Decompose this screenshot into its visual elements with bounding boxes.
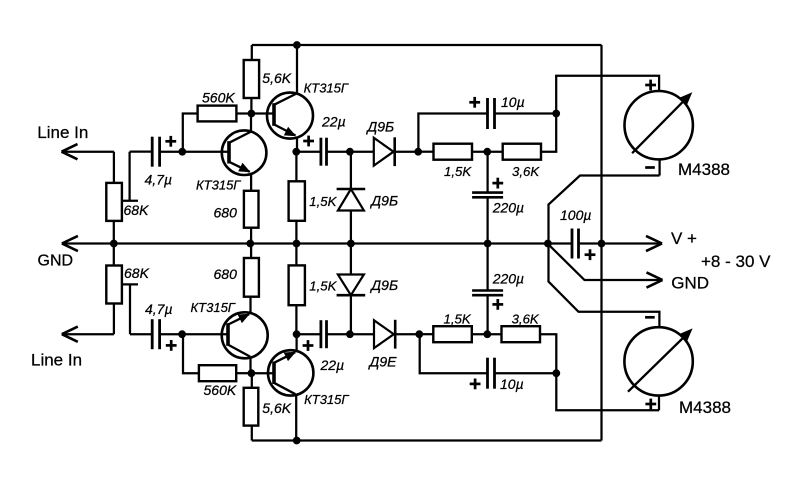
wire 3,6K right to vertical (top) [541, 114, 556, 152]
label 680 (top) [214, 205, 238, 221]
label GND right [671, 274, 709, 293]
svg-text:68K: 68K [124, 202, 150, 218]
wire Д9Е to rect node (bottom) [395, 333, 419, 335]
svg-text:Line In: Line In [37, 123, 88, 142]
label M4388 (bottom) [679, 398, 731, 417]
svg-text:1,5K: 1,5K [309, 278, 337, 293]
capacitor 22µ (top) [321, 138, 327, 166]
capacitor 220µ (top) [472, 193, 503, 198]
label 10µ (bottom) [500, 376, 524, 392]
resistor 560K (top) [198, 106, 237, 122]
wire M2 + to meter node [556, 373, 659, 410]
svg-text:GND: GND [671, 274, 709, 293]
wire 68K top upper lead [113, 152, 115, 183]
node rail dot above Q2 [293, 41, 301, 49]
svg-text:КТ315Г: КТ315Г [304, 392, 349, 407]
label 68K (top) [124, 202, 150, 218]
label 3,6K (horizontal bottom) [512, 312, 540, 327]
wire diode vert top lower lead [350, 211, 352, 244]
label 220µ (bottom) [492, 270, 524, 286]
ground GND left arrow [62, 236, 78, 251]
wire diode node to Д9Б (top) [351, 151, 374, 153]
svg-text:КТ315Г: КТ315Г [304, 81, 349, 96]
wire 68K top tap [122, 152, 138, 201]
node GND dot at 680 [246, 240, 254, 248]
transistor Q3 КТ315Г circle [222, 312, 268, 358]
label КТ315Г (Q2) [304, 81, 349, 96]
resistor 560K (bottom) [199, 365, 236, 381]
wire base node to Q3 [182, 333, 228, 335]
label − of M2 [645, 316, 655, 319]
node bus V+ dot [598, 240, 606, 248]
svg-text:1,5K: 1,5K [309, 194, 337, 209]
wire Q1 collector up [250, 114, 252, 132]
transistor Q3 base bar [226, 323, 230, 346]
svg-text:100µ: 100µ [560, 207, 591, 223]
node V+ arrow [646, 236, 662, 251]
node Line In (bottom) label [31, 351, 82, 370]
wire GND node down to M2 − [549, 244, 660, 328]
transistor Q2 collector stroke [274, 94, 297, 105]
transistor Q2 emitter stroke [274, 124, 296, 136]
wire 560K bottom right lead [236, 372, 251, 374]
svg-text:3,6K: 3,6K [512, 164, 540, 179]
svg-text:560K: 560K [204, 382, 237, 398]
meter M2 needle [628, 328, 693, 391]
svg-text:22µ: 22µ [320, 357, 345, 373]
label 5,6K (top) [262, 70, 291, 86]
node GND dot at 220µ [484, 240, 492, 248]
svg-text:680: 680 [214, 266, 238, 282]
wire junction to Q2 base [251, 112, 274, 114]
label 4,7µ (top) [145, 172, 173, 188]
svg-text:4,7µ: 4,7µ [145, 301, 173, 317]
label Д9Е (horizontal bottom) [368, 354, 398, 370]
wire 4,7µ to base node (bottom) [160, 333, 183, 335]
meter M1 circle [625, 91, 693, 159]
label КТ315Г (Q3) [191, 300, 236, 315]
transistor Q1 collector stroke [229, 132, 251, 143]
meter M2 circle [624, 327, 692, 395]
transistor Q1 base bar [227, 141, 231, 163]
wire GND output diagonal [549, 245, 663, 281]
label + of 22µ (top) [303, 136, 314, 147]
resistor 680 (top) [244, 191, 259, 228]
label + of 100µ [585, 249, 596, 260]
wire rect node to 1,5K (bottom) [419, 333, 433, 335]
wire diode vert bottom upper lead [350, 244, 352, 275]
svg-text:1,5K: 1,5K [444, 312, 472, 327]
wire 68K bottom upper lead [113, 244, 115, 266]
svg-text:Line In: Line In [31, 351, 82, 370]
node 10µ/meter node top [552, 110, 560, 118]
svg-text:4,7µ: 4,7µ [145, 172, 173, 188]
label V + [671, 229, 697, 248]
transistor Q3 emitter stroke [228, 314, 250, 325]
label 22µ (top) [321, 113, 346, 129]
resistor 5,6K (bottom) [244, 388, 259, 426]
label 1,5K (horizontal bottom) [444, 312, 472, 327]
wire Д9Б to rect node (top) [395, 151, 419, 153]
node rail dot below Q4 [293, 437, 301, 445]
wire base node to Q1 [182, 151, 229, 153]
diode Д9Е (horizontal bottom) [374, 320, 395, 349]
label + of M2 [645, 399, 656, 410]
transistor Q1 emitter stroke [229, 162, 251, 172]
wire Q3 collector down [249, 357, 251, 373]
capacitor 22µ (bottom) [321, 320, 327, 348]
label +8 - 30 V [701, 252, 771, 271]
label 3,6K (horizontal top) [512, 164, 540, 179]
svg-text:220µ: 220µ [492, 200, 524, 216]
wire 560K right lead [236, 112, 251, 114]
label + of M1 [645, 80, 656, 91]
wire tap to 4,7µ (bottom) [130, 333, 152, 335]
wire 1,5K vert top upper lead [295, 152, 297, 182]
wire M1 − to GND node [549, 176, 660, 244]
node Line In top arrow [62, 144, 78, 159]
resistor 3,6K (horizontal bottom) [502, 326, 541, 342]
node GND dot at diode column [347, 240, 355, 248]
node Line In (top) label [37, 123, 88, 142]
node GND dot at 68K [110, 240, 118, 248]
resistor 68K (bottom) [106, 266, 122, 304]
wire rect node down to 10µ (bottom) [420, 334, 488, 373]
label Д9Б (vertical bottom) [369, 277, 398, 293]
svg-text:68K: 68K [124, 265, 150, 281]
label 680 (bottom) [214, 266, 238, 282]
label 4,7µ (bottom) [145, 301, 173, 317]
node rectifier node bottom [415, 330, 423, 338]
wire rect node up to 10µ (top) [418, 114, 487, 152]
wire diode vert top upper lead [350, 152, 352, 189]
wire 3,6K right to vertical (bottom) [540, 334, 556, 373]
capacitor 4,7µ (top) [152, 137, 159, 167]
wire 1,5K vert bottom upper lead [295, 244, 297, 266]
svg-text:Д9Е: Д9Е [368, 354, 398, 370]
wire GND down to 220µ (bottom) [486, 244, 488, 291]
svg-text:Д9Б: Д9Б [365, 118, 394, 134]
wire V+ output [602, 242, 663, 244]
label 5,6K (bottom) [262, 400, 291, 416]
label Д9Б (vertical top) [369, 193, 398, 209]
resistor 68K (top) [106, 183, 122, 221]
label Д9Б (horizontal top) [365, 118, 394, 134]
node Q4 emitter row dot [293, 330, 301, 338]
label 22µ (bottom) [320, 357, 345, 373]
node base node Q1 [178, 148, 186, 156]
wire 5,6K top upper lead [251, 45, 253, 60]
wire 5,6K bottom upper lead [251, 373, 253, 388]
resistor 1,5K (horizontal bottom) [433, 326, 472, 342]
resistor 1,5K (vertical top) [289, 181, 305, 221]
wire Q4 collector to rail [295, 395, 297, 441]
label 560K (bottom) [204, 382, 237, 398]
wire diode vert bottom lower lead [350, 295, 352, 334]
wire 4,7µ to base node (top) [160, 151, 183, 153]
svg-text:GND: GND [38, 252, 74, 269]
node Line In bottom arrow [62, 327, 78, 342]
label 1,5K (vertical top) [309, 194, 337, 209]
wire 1,5K vert bottom lower lead [295, 305, 297, 334]
wire 68K top lower lead [113, 221, 115, 244]
resistor 1,5K (horizontal top) [434, 144, 473, 160]
wire mid node down to 220µ (top) [486, 152, 488, 193]
wire 5,6K bottom lower lead [251, 426, 253, 441]
svg-text:M4388: M4388 [678, 160, 730, 179]
resistor 1,5K (vertical bottom) [289, 265, 305, 305]
transistor Q1 КТ315Г circle [222, 130, 267, 175]
wire Q2 collector to rail [296, 45, 298, 94]
node 560K/5,6K junction (bottom) [248, 369, 256, 377]
wire 220µ to GND (top) [486, 197, 488, 243]
wire 22µ to diode node (top) [327, 151, 351, 153]
wire bottom V+ rail [252, 439, 602, 441]
svg-text:1,5K: 1,5K [444, 164, 472, 179]
label 1,5K (horizontal top) [444, 164, 472, 179]
label 100µ [560, 207, 591, 223]
label + of 220µ (top) [492, 178, 503, 189]
node rectifier node top [414, 148, 422, 156]
capacitor 4,7µ (bottom) [152, 319, 159, 349]
wire GND node to 100µ [548, 242, 572, 244]
wire Q4 emitter up [295, 334, 297, 351]
transistor Q4 КТ315Г circle [268, 350, 313, 395]
node Q2 emitter row dot [292, 148, 300, 156]
wire right V+ bus [600, 45, 602, 441]
wire 10µ to meter node (top) [495, 112, 557, 114]
svg-text:+8 - 30 V: +8 - 30 V [701, 252, 771, 271]
label M4388 (top) [678, 160, 730, 179]
label 10µ (top) [501, 94, 525, 110]
label + of 22µ (bottom) [303, 340, 314, 351]
wire rect node to 1,5K (top) [418, 151, 433, 153]
resistor 3,6K (horizontal top) [503, 144, 541, 160]
node base node Q3 [178, 330, 186, 338]
wire diode node to Д9Е (bottom) [351, 333, 374, 335]
wire 10µ to meter node (bottom) [495, 372, 557, 374]
label 560K (top) [202, 89, 235, 105]
svg-text:Д9Б: Д9Б [369, 193, 398, 209]
wire 22µ to diode node (bottom) [327, 333, 351, 335]
svg-text:5,6K: 5,6K [262, 70, 291, 86]
label 220µ (top) [492, 200, 524, 216]
wire 1,5K to mid node (top) [472, 151, 503, 153]
node 10µ/meter node bottom [552, 369, 560, 377]
svg-text:10µ: 10µ [501, 94, 525, 110]
resistor 680 (bottom) [244, 258, 259, 297]
label 1,5K (vertical bottom) [309, 278, 337, 293]
svg-text:КТ315Г: КТ315Г [191, 300, 236, 315]
label − of M1 [645, 166, 655, 169]
diode Д9Б (horizontal top) [374, 137, 395, 166]
wire M2 + stub [658, 396, 660, 411]
wire base node down to 560K [183, 334, 199, 373]
node mid node bottom row [483, 330, 491, 338]
transistor Q4 collector stroke [274, 383, 295, 394]
label + of 4,7µ (bottom) [166, 340, 177, 351]
node GND dot at 1,5K [293, 240, 301, 248]
svg-text:10µ: 10µ [500, 376, 524, 392]
wire 5,6K top bottom lead [250, 98, 252, 114]
wire M1 − stub [658, 159, 660, 175]
transistor Q2 base bar [272, 103, 276, 126]
wire 220µ to row (bottom) [486, 295, 488, 334]
wire Line In top lead [62, 151, 114, 153]
wire row dot to 22µ [296, 151, 321, 153]
svg-text:22µ: 22µ [321, 113, 346, 129]
diode Д9Б (vertical top) [337, 189, 366, 211]
label + of 10µ (top) [469, 97, 480, 108]
wire 1,5K to mid node (bottom) [472, 333, 502, 335]
node diode column top dot [346, 148, 354, 156]
resistor 5,6K (top) [244, 60, 259, 98]
wire 680 top lower lead [250, 228, 252, 244]
svg-text:5,6K: 5,6K [262, 400, 291, 416]
wire 680 bottom upper lead [250, 244, 252, 259]
node mid node top row [483, 148, 491, 156]
wire GND mid line [62, 242, 548, 244]
wire Q1 emitter down [250, 174, 252, 191]
label + of 10µ (bottom) [470, 379, 481, 390]
capacitor 10µ (bottom) [488, 358, 495, 389]
transistor Q4 emitter stroke [274, 352, 296, 363]
svg-text:3,6K: 3,6K [512, 312, 540, 327]
svg-text:V +: V + [671, 229, 697, 248]
label + of 220µ (bottom) [492, 299, 503, 310]
node 560K/5,6K junction (top) [248, 110, 256, 118]
capacitor 100µ [572, 229, 579, 259]
wire meter node up and to M1 + [556, 76, 659, 114]
wire junction to Q4 base [251, 372, 274, 374]
transistor Q4 base bar [272, 362, 276, 385]
transistor Q3 collector stroke [228, 345, 250, 357]
wire base node up to 560K [183, 114, 198, 152]
label 68K (bottom) [124, 265, 150, 281]
wire Q3 emitter up [249, 297, 251, 313]
wire tap to 4,7µ (top) [130, 150, 153, 152]
wire 100µ right to bus [579, 242, 603, 244]
label + of 4,7µ (top) [165, 136, 176, 147]
svg-text:КТ315Г: КТ315Г [196, 178, 241, 193]
meter M1 needle [632, 92, 692, 153]
wire 1,5K vert top lower lead [295, 221, 297, 244]
wire 68K bottom tap [122, 284, 138, 334]
svg-text:220µ: 220µ [492, 270, 524, 286]
capacitor 10µ (top) [488, 98, 495, 129]
wire Q2 emitter down [296, 138, 298, 152]
label КТ315Г (Q1) [196, 178, 241, 193]
node GND-left label [38, 252, 74, 269]
wire row dot to 22µ (bottom) [297, 333, 321, 335]
wire 68K bottom lower lead [113, 304, 115, 335]
node GND output arrow [647, 272, 663, 287]
wire Line In bottom lead [62, 333, 114, 335]
transistor Q2 КТ315Г circle [267, 93, 313, 139]
label КТ315Г (Q4) [304, 392, 349, 407]
capacitor 220µ (bottom) [472, 291, 503, 296]
svg-text:680: 680 [214, 205, 238, 221]
svg-text:Д9Б: Д9Б [369, 277, 398, 293]
node main GND node [544, 240, 552, 248]
wire top V+ rail [252, 44, 602, 46]
svg-text:560K: 560K [202, 89, 235, 105]
diode Д9Б (vertical bottom) [337, 275, 366, 296]
svg-text:M4388: M4388 [679, 398, 731, 417]
node diode column bottom dot [346, 330, 354, 338]
